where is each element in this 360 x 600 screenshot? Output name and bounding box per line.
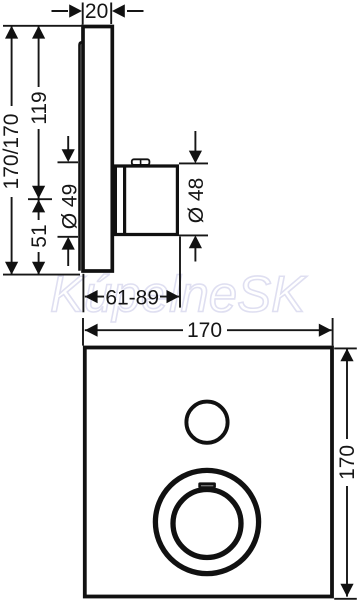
arrow front 170 right-bottom xyxy=(340,584,353,597)
front dim 170 top ext left xyxy=(82,318,84,346)
dim dia48 ext top xyxy=(179,162,208,164)
arrow 119 bottom xyxy=(32,186,45,199)
svg-text:119: 119 xyxy=(28,91,51,124)
arrow front 170 top-right xyxy=(319,324,332,337)
svg-text:Ø 49: Ø 49 xyxy=(58,184,81,230)
dim 51 line xyxy=(38,200,40,275)
arrow dia49 top xyxy=(62,149,75,162)
arrow 20 right xyxy=(112,4,125,17)
dim dia48 ext bottom xyxy=(179,234,208,236)
dim 170/170 line xyxy=(11,26,13,275)
arrow dia48 bottom xyxy=(189,235,202,248)
arrow 51 bottom xyxy=(32,262,45,275)
svg-text:170: 170 xyxy=(187,319,222,342)
dim dia48 stems xyxy=(194,131,196,262)
svg-text:KúpelneSK: KúpelneSK xyxy=(50,266,307,323)
knob sleeve line xyxy=(123,166,126,235)
dim 61-89 ext left xyxy=(82,274,84,313)
svg-text:61-89: 61-89 xyxy=(105,286,159,309)
dim 119 line xyxy=(38,26,40,199)
svg-text:51: 51 xyxy=(28,224,51,247)
svg-text:Ø 48: Ø 48 xyxy=(185,178,208,224)
dim 20 leader left xyxy=(52,10,69,12)
dim dia49 stems xyxy=(67,136,69,266)
front dim 170 right line xyxy=(346,349,348,597)
arrow 170/170 top xyxy=(5,26,18,39)
dim 61-89 ext right xyxy=(179,237,181,308)
bottom ext line xyxy=(3,274,80,276)
knob center ext line xyxy=(28,198,52,200)
seal plate behind xyxy=(80,42,84,270)
handle marker tab xyxy=(198,482,216,488)
arrow front 170 top-left xyxy=(85,324,98,337)
arrow 61-89 right xyxy=(167,290,180,303)
handle inner circle xyxy=(173,490,241,558)
handle marker slit xyxy=(201,485,213,486)
dim dia49 ext top xyxy=(58,161,79,163)
knob tab side view xyxy=(132,159,150,165)
top ext line xyxy=(3,25,83,27)
svg-text:170/170: 170/170 xyxy=(0,114,23,190)
dim 20 ext line right xyxy=(110,3,112,25)
dim 61-89 line xyxy=(85,296,180,298)
knob body side view xyxy=(115,166,177,235)
arrow 119 top xyxy=(32,26,45,39)
front dim 170 right ext bottom xyxy=(334,598,357,600)
handle outer circle xyxy=(155,470,258,573)
arrow dia49 bottom xyxy=(62,237,75,250)
front dim 170 top ext right xyxy=(332,318,334,346)
front dim 170 top line xyxy=(85,329,332,331)
front dim 170 right ext top xyxy=(334,347,357,349)
dim 20 leader right xyxy=(127,10,144,12)
dim 20 ext line left xyxy=(82,3,84,25)
arrow 20 left xyxy=(69,4,82,17)
arrow 51 top xyxy=(32,200,45,213)
arrow 61-89 left xyxy=(85,290,98,303)
dim dia49 ext bottom xyxy=(58,236,79,238)
svg-text:20: 20 xyxy=(85,0,108,23)
select button circle xyxy=(186,402,227,443)
front plate square xyxy=(85,348,332,597)
knob tab divider xyxy=(140,160,142,165)
arrow dia48 top xyxy=(189,151,202,164)
arrow front 170 right-top xyxy=(340,349,353,362)
svg-text:170: 170 xyxy=(336,445,359,480)
plate side view xyxy=(83,27,112,272)
arrow 170/170 bottom xyxy=(5,262,18,275)
